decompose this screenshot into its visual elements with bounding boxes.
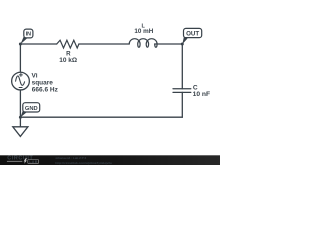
svg-text:10 kΩ: 10 kΩ xyxy=(59,57,77,64)
svg-text:666.6 Hz: 666.6 Hz xyxy=(32,87,59,94)
svg-text:OUT: OUT xyxy=(186,31,199,38)
svg-text:http://circuitlab.com/c/p6ma7y: http://circuitlab.com/c/p6ma7ymbqv3u xyxy=(55,161,111,165)
svg-text:IN: IN xyxy=(26,32,31,38)
svg-text:mhansen4 : Lab 2 P 2: mhansen4 : Lab 2 P 2 xyxy=(56,156,87,160)
svg-text:square: square xyxy=(32,80,54,87)
svg-text:R: R xyxy=(66,50,71,57)
svg-text:Vi: Vi xyxy=(32,72,38,79)
svg-text:10 mH: 10 mH xyxy=(134,28,153,35)
svg-text:GND: GND xyxy=(25,106,38,112)
svg-text:10 nF: 10 nF xyxy=(193,91,210,98)
svg-text:LAB: LAB xyxy=(29,160,38,164)
